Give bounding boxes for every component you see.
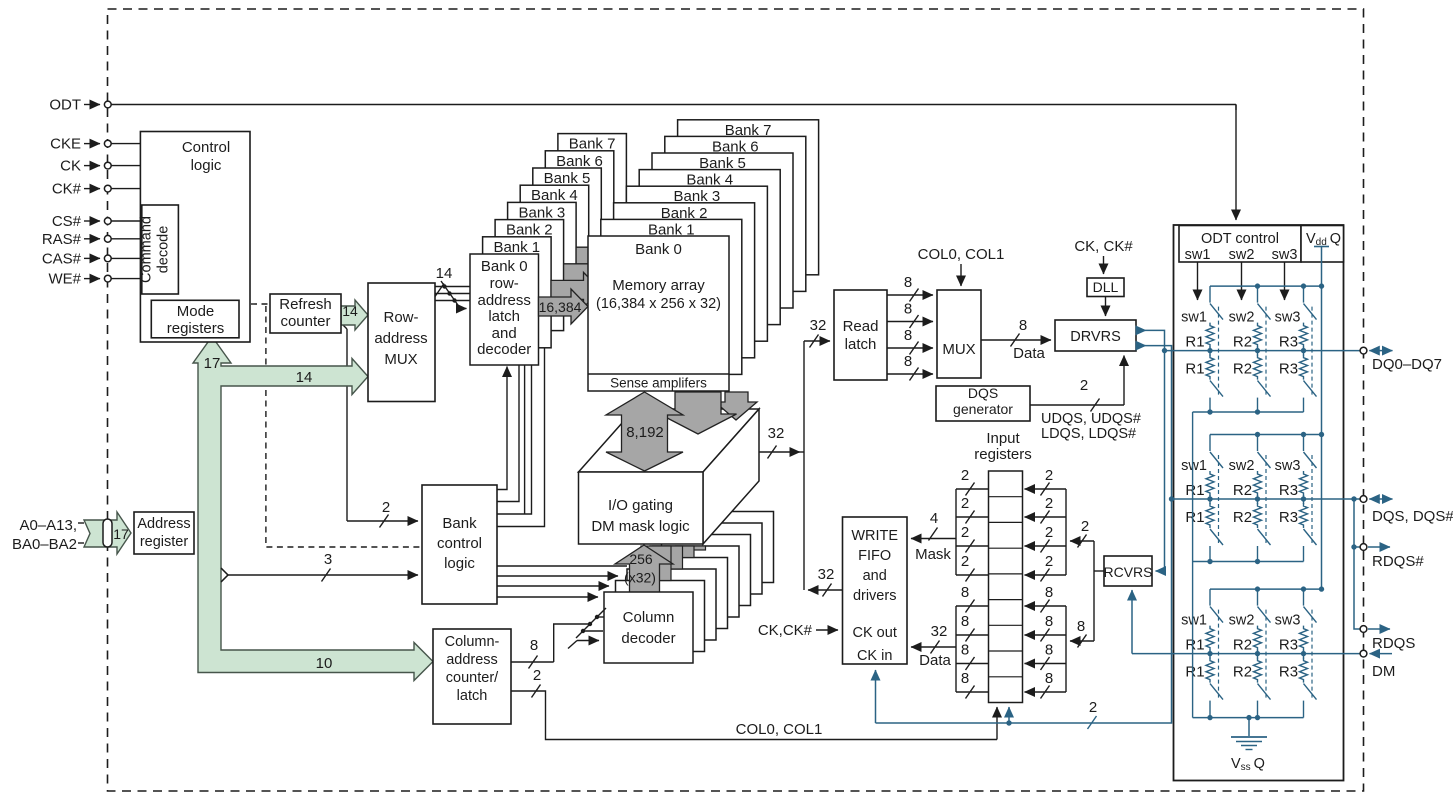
svg-text:Column-: Column- <box>445 634 500 650</box>
svg-text:2: 2 <box>1045 467 1053 484</box>
svg-text:sw1: sw1 <box>1181 613 1207 629</box>
svg-text:CAS#: CAS# <box>42 250 82 267</box>
svg-text:MUX: MUX <box>384 351 417 368</box>
svg-text:2: 2 <box>1045 553 1053 570</box>
svg-text:Input: Input <box>986 430 1020 447</box>
svg-text:row-: row- <box>490 275 519 292</box>
svg-text:DQS: DQS <box>968 385 998 401</box>
svg-text:sw3: sw3 <box>1275 310 1301 326</box>
svg-text:8: 8 <box>904 274 912 291</box>
svg-text:WE#: WE# <box>48 271 81 288</box>
svg-text:8: 8 <box>1045 584 1053 601</box>
svg-text:latch: latch <box>488 308 520 325</box>
svg-text:LDQS, LDQS#: LDQS, LDQS# <box>1041 426 1136 442</box>
svg-text:R3: R3 <box>1279 664 1298 681</box>
svg-text:Memory array: Memory array <box>612 277 705 294</box>
svg-text:CKE: CKE <box>50 136 81 153</box>
svg-text:counter: counter <box>280 313 330 330</box>
svg-text:RCVRS: RCVRS <box>1103 564 1152 580</box>
svg-text:Mask: Mask <box>915 546 951 563</box>
svg-text:Bank: Bank <box>442 515 477 532</box>
svg-text:256: 256 <box>629 551 653 567</box>
svg-text:R2: R2 <box>1233 637 1252 654</box>
svg-text:FIFO: FIFO <box>858 548 891 564</box>
svg-text:2: 2 <box>961 524 969 541</box>
svg-text:8: 8 <box>961 613 969 630</box>
svg-text:R3: R3 <box>1279 509 1298 526</box>
svg-text:17: 17 <box>204 355 221 372</box>
svg-text:2: 2 <box>961 495 969 512</box>
svg-text:8: 8 <box>961 584 969 601</box>
svg-text:and: and <box>863 568 887 584</box>
svg-text:8: 8 <box>1045 642 1053 659</box>
svg-text:R2: R2 <box>1233 482 1252 499</box>
svg-text:32: 32 <box>810 317 827 334</box>
svg-text:CS#: CS# <box>52 213 82 230</box>
svg-text:R1: R1 <box>1185 334 1204 351</box>
svg-text:3: 3 <box>324 551 332 568</box>
svg-text:R1: R1 <box>1185 637 1204 654</box>
svg-text:Read: Read <box>843 318 879 335</box>
svg-text:registers: registers <box>167 320 225 337</box>
svg-text:sw3: sw3 <box>1275 613 1301 629</box>
svg-text:sw3: sw3 <box>1272 247 1298 263</box>
svg-text:10: 10 <box>316 655 333 672</box>
svg-text:DM mask logic: DM mask logic <box>591 518 690 535</box>
svg-text:(16,384 x 256 x 32): (16,384 x 256 x 32) <box>596 296 721 312</box>
svg-text:latch: latch <box>457 688 488 704</box>
svg-text:2: 2 <box>1089 699 1097 716</box>
svg-text:I/O gating: I/O gating <box>608 497 673 514</box>
svg-text:R2: R2 <box>1233 509 1252 526</box>
svg-text:14: 14 <box>296 369 313 386</box>
svg-text:sw2: sw2 <box>1229 458 1255 474</box>
svg-text:UDQS, UDQS#: UDQS, UDQS# <box>1041 411 1141 427</box>
svg-text:sw3: sw3 <box>1275 458 1301 474</box>
svg-text:Address: Address <box>137 516 190 532</box>
svg-text:2: 2 <box>1081 518 1089 535</box>
svg-text:8: 8 <box>904 353 912 370</box>
svg-text:(x32): (x32) <box>624 570 656 586</box>
svg-text:sw1: sw1 <box>1185 247 1211 263</box>
svg-text:R3: R3 <box>1279 334 1298 351</box>
svg-text:A0–A13,: A0–A13, <box>19 517 77 534</box>
svg-text:address: address <box>478 292 531 309</box>
svg-text:Sense amplifers: Sense amplifers <box>610 376 707 391</box>
svg-text:RDQS#: RDQS# <box>1372 553 1424 570</box>
svg-text:2: 2 <box>533 667 541 684</box>
svg-text:register: register <box>140 534 189 550</box>
svg-text:8: 8 <box>530 637 538 654</box>
svg-text:16,384: 16,384 <box>539 299 582 315</box>
svg-text:registers: registers <box>974 446 1032 463</box>
svg-text:8: 8 <box>1045 670 1053 687</box>
svg-text:R2: R2 <box>1233 664 1252 681</box>
svg-text:2: 2 <box>1080 377 1088 394</box>
svg-text:Control: Control <box>182 139 230 156</box>
svg-text:14: 14 <box>436 265 453 282</box>
svg-text:sw2: sw2 <box>1229 310 1255 326</box>
svg-text:8: 8 <box>904 327 912 344</box>
svg-text:8: 8 <box>961 670 969 687</box>
svg-text:8: 8 <box>1045 613 1053 630</box>
svg-text:DQ0–DQ7: DQ0–DQ7 <box>1372 356 1442 373</box>
svg-text:8,192: 8,192 <box>626 424 664 441</box>
svg-text:2: 2 <box>961 467 969 484</box>
svg-text:MUX: MUX <box>942 341 975 358</box>
svg-text:2: 2 <box>382 499 390 516</box>
svg-text:Column: Column <box>623 609 675 626</box>
svg-text:address: address <box>374 330 427 347</box>
svg-text:RAS#: RAS# <box>42 231 82 248</box>
svg-text:ODT: ODT <box>49 97 81 114</box>
svg-text:latch: latch <box>845 336 877 353</box>
svg-text:32: 32 <box>818 566 835 583</box>
svg-text:address: address <box>446 652 498 668</box>
svg-text:R1: R1 <box>1185 509 1204 526</box>
svg-text:CK: CK <box>60 158 81 175</box>
svg-text:logic: logic <box>444 555 475 572</box>
svg-text:Bank 0: Bank 0 <box>481 258 528 275</box>
svg-text:sw1: sw1 <box>1181 310 1207 326</box>
svg-text:R1: R1 <box>1185 482 1204 499</box>
svg-text:17: 17 <box>113 526 129 542</box>
svg-text:decoder: decoder <box>621 630 675 647</box>
svg-text:Refresh: Refresh <box>279 296 332 313</box>
svg-text:ODT control: ODT control <box>1201 231 1279 247</box>
svg-text:Mode: Mode <box>177 303 215 320</box>
svg-text:CK,CK#: CK,CK# <box>758 622 813 639</box>
svg-text:DRVRS: DRVRS <box>1070 329 1121 345</box>
svg-text:Data: Data <box>919 652 951 669</box>
svg-text:COL0, COL1: COL0, COL1 <box>918 246 1005 263</box>
svg-text:2: 2 <box>1045 495 1053 512</box>
svg-text:2: 2 <box>961 553 969 570</box>
svg-text:WRITE: WRITE <box>851 528 898 544</box>
svg-text:RDQS: RDQS <box>1372 635 1415 652</box>
svg-text:CK, CK#: CK, CK# <box>1074 238 1133 255</box>
svg-text:CK in: CK in <box>857 648 892 664</box>
svg-text:decoder: decoder <box>477 341 531 358</box>
svg-text:2: 2 <box>1045 524 1053 541</box>
svg-text:generator: generator <box>953 401 1013 417</box>
svg-text:counter/: counter/ <box>446 670 499 686</box>
svg-text:Command: Command <box>139 216 155 283</box>
svg-text:sw1: sw1 <box>1181 458 1207 474</box>
svg-text:8: 8 <box>904 301 912 318</box>
svg-text:CK out: CK out <box>853 625 897 641</box>
svg-text:CK#: CK# <box>52 181 82 198</box>
svg-text:8: 8 <box>1019 317 1027 334</box>
svg-text:COL0, COL1: COL0, COL1 <box>736 721 823 738</box>
svg-text:DQS, DQS#: DQS, DQS# <box>1372 508 1453 525</box>
svg-text:14: 14 <box>342 303 358 319</box>
svg-text:R1: R1 <box>1185 664 1204 681</box>
svg-text:control: control <box>437 535 482 552</box>
svg-text:and: and <box>492 325 517 342</box>
svg-text:R1: R1 <box>1185 361 1204 378</box>
svg-text:sw2: sw2 <box>1229 247 1255 263</box>
svg-text:R2: R2 <box>1233 361 1252 378</box>
svg-text:DM: DM <box>1372 663 1395 680</box>
svg-text:R3: R3 <box>1279 637 1298 654</box>
svg-text:BA0–BA2: BA0–BA2 <box>12 536 77 553</box>
svg-text:8: 8 <box>1077 618 1085 635</box>
svg-text:logic: logic <box>191 157 222 174</box>
svg-text:sw2: sw2 <box>1229 613 1255 629</box>
svg-text:32: 32 <box>768 425 785 442</box>
svg-text:32: 32 <box>931 623 948 640</box>
svg-text:drivers: drivers <box>853 588 897 604</box>
svg-text:R3: R3 <box>1279 482 1298 499</box>
svg-text:DLL: DLL <box>1093 279 1119 295</box>
svg-text:decode: decode <box>156 226 172 274</box>
svg-text:Data: Data <box>1013 345 1045 362</box>
svg-text:Bank 0: Bank 0 <box>635 241 682 258</box>
svg-text:8: 8 <box>961 642 969 659</box>
svg-text:4: 4 <box>930 510 938 527</box>
svg-text:R2: R2 <box>1233 334 1252 351</box>
svg-text:Bank 3: Bank 3 <box>519 204 566 221</box>
svg-text:Row-: Row- <box>383 309 418 326</box>
svg-text:R3: R3 <box>1279 361 1298 378</box>
